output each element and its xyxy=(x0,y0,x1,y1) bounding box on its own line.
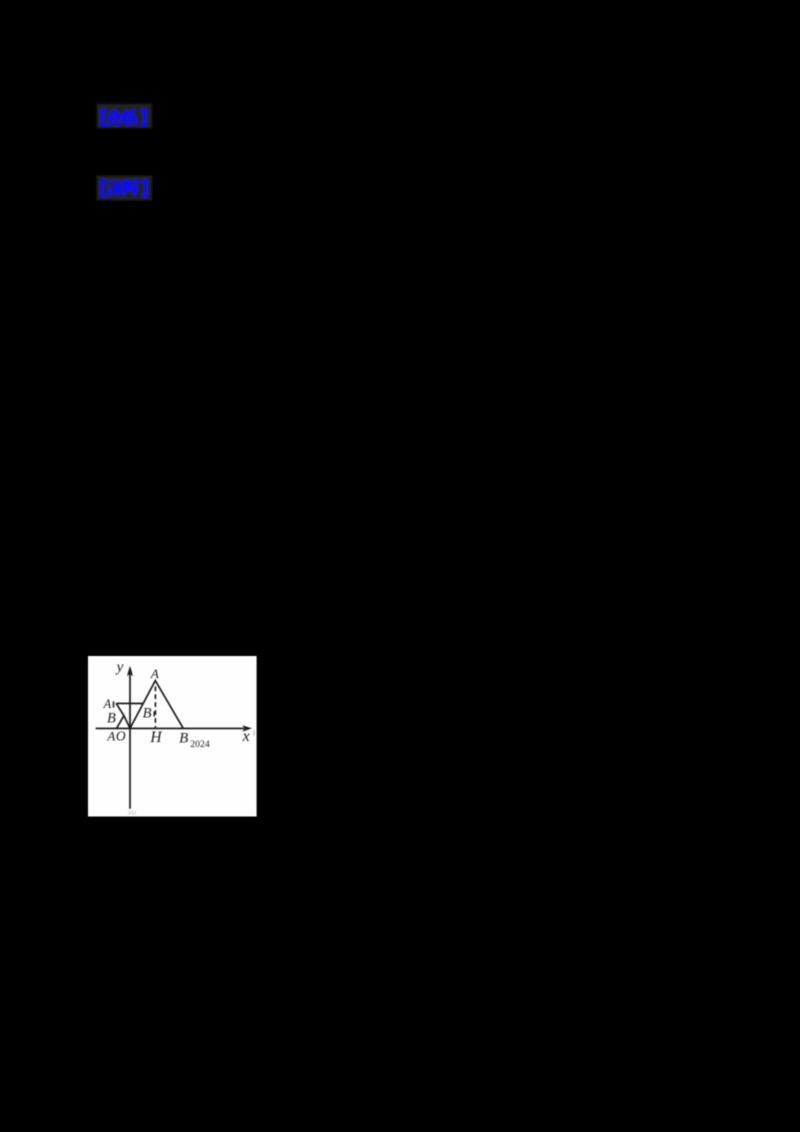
gray handle at y-axis bottom xyxy=(128,811,136,816)
subscript tick of A1 xyxy=(113,701,115,707)
svg-text:B: B xyxy=(107,711,116,727)
【 xyxy=(102,110,106,124)
svg-text:A: A xyxy=(103,697,112,711)
dashed altitude A-H xyxy=(154,687,156,728)
svg-text:2024: 2024 xyxy=(190,739,210,750)
svg-text:A: A xyxy=(150,666,159,681)
svg-text:H: H xyxy=(149,729,162,746)
svg-text:y: y xyxy=(115,660,124,676)
y-axis arrowhead xyxy=(127,666,133,677)
svg-text:B: B xyxy=(143,705,152,721)
分 xyxy=(108,110,113,119)
gray tick right of card xyxy=(253,730,255,736)
figure: coordinate-plane diagram on white card xyxy=(84,652,260,820)
white card xyxy=(88,656,257,817)
polyline A1-B-O xyxy=(116,703,130,728)
y-axis xyxy=(129,674,131,809)
svg-text:B: B xyxy=(179,731,188,747)
segment A1-B1 (horizontal) xyxy=(116,702,143,704)
label box 1 (blue 【分析】 tag on dark box) xyxy=(93,100,155,132)
x-axis xyxy=(96,727,244,729)
svg-text:x: x xyxy=(242,728,250,745)
label box 2 (blue 【详解】 tag on dark box) xyxy=(93,172,155,204)
svg-text:A: A xyxy=(106,728,115,743)
】 xyxy=(141,110,145,124)
svg-text:O: O xyxy=(116,729,126,744)
x-axis arrowhead xyxy=(242,725,252,731)
triangle O-A-B2024 xyxy=(130,681,183,729)
详 xyxy=(109,181,110,183)
】 xyxy=(141,181,145,196)
【 xyxy=(102,181,106,196)
析 xyxy=(125,110,128,126)
segment B-A xyxy=(117,716,124,729)
解 xyxy=(124,180,126,183)
subscript tick of B1 xyxy=(153,711,155,716)
